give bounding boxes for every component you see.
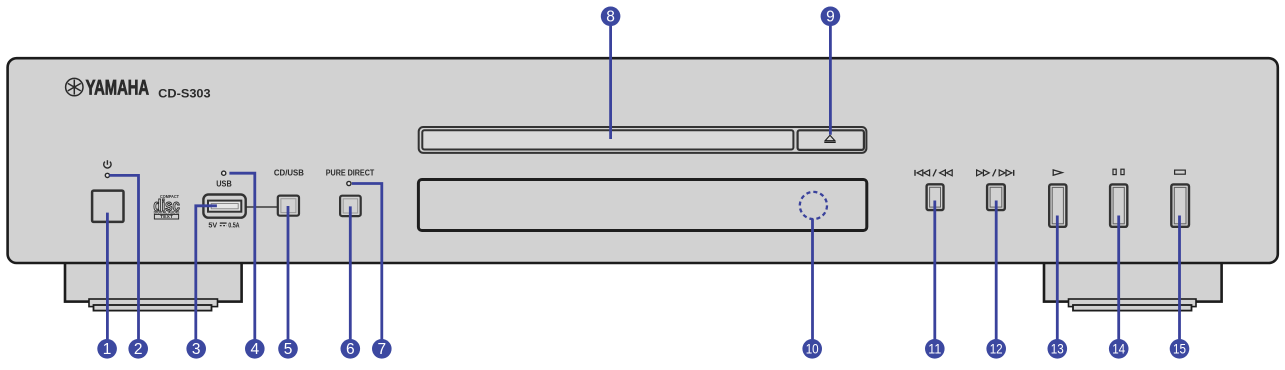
svg-text:CD/USB: CD/USB	[274, 168, 304, 177]
svg-text:9: 9	[826, 9, 835, 26]
svg-text:3: 3	[192, 341, 201, 358]
svg-text:8: 8	[606, 9, 615, 26]
svg-text:7: 7	[377, 341, 386, 358]
svg-text:TEXT: TEXT	[160, 214, 173, 219]
svg-text:2: 2	[134, 341, 143, 358]
svg-text:CD-S303: CD-S303	[158, 86, 211, 100]
svg-text:5V: 5V	[208, 223, 217, 230]
svg-text:USB: USB	[216, 179, 232, 188]
svg-text:0.5A: 0.5A	[228, 223, 239, 230]
svg-text:4: 4	[250, 341, 259, 358]
svg-text:11: 11	[928, 342, 941, 357]
svg-text:PURE DIRECT: PURE DIRECT	[326, 168, 375, 177]
svg-text:13: 13	[1051, 342, 1064, 357]
svg-text:10: 10	[806, 342, 819, 357]
svg-text:6: 6	[346, 341, 355, 358]
svg-text:15: 15	[1173, 342, 1186, 357]
svg-text:1: 1	[103, 341, 112, 358]
svg-text:YAMAHA: YAMAHA	[86, 76, 150, 99]
svg-text:12: 12	[990, 342, 1003, 357]
svg-text:5: 5	[284, 341, 293, 358]
svg-text:14: 14	[1112, 342, 1125, 357]
